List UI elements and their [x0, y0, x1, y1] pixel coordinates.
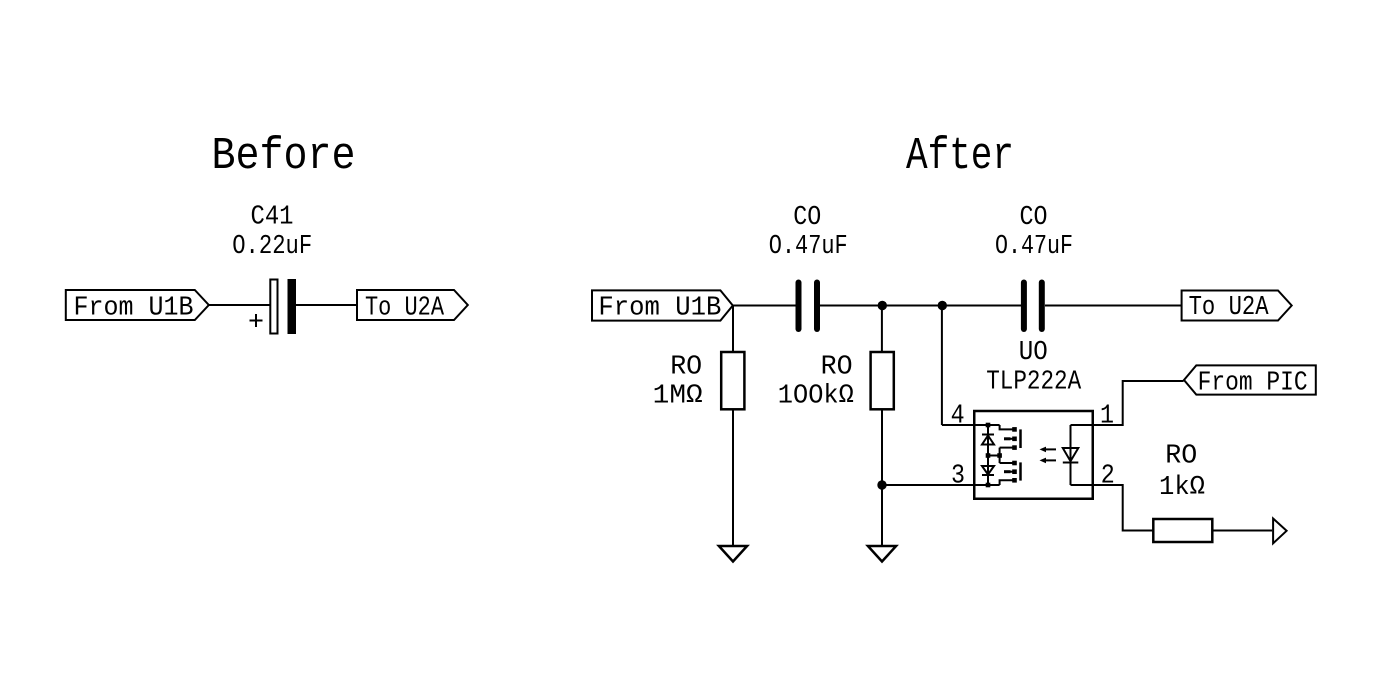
svg-text:4: 4 — [951, 402, 965, 432]
svg-text:From PIC: From PIC — [1198, 369, 1308, 399]
svg-text:UO: UO — [1019, 338, 1048, 368]
svg-text:To U2A: To U2A — [365, 294, 445, 324]
svg-text:C41: C41 — [251, 203, 294, 233]
svg-text:O.47uF: O.47uF — [995, 232, 1073, 262]
svg-text:RO: RO — [1165, 442, 1197, 472]
svg-text:TLP222A: TLP222A — [986, 367, 1082, 397]
svg-text:CO: CO — [1020, 203, 1048, 233]
svg-text:To U2A: To U2A — [1189, 293, 1270, 323]
svg-text:From U1B: From U1B — [74, 294, 194, 324]
svg-text:RO: RO — [821, 353, 853, 383]
svg-text:1MΩ: 1MΩ — [653, 382, 703, 412]
svg-text:1: 1 — [1100, 402, 1114, 432]
svg-text:1OOkΩ: 1OOkΩ — [778, 382, 854, 412]
svg-text:1kΩ: 1kΩ — [1159, 473, 1205, 503]
svg-text:RO: RO — [670, 353, 702, 383]
svg-text:Before: Before — [212, 131, 356, 182]
svg-text:3: 3 — [951, 461, 965, 491]
svg-text:2: 2 — [1101, 461, 1115, 491]
svg-text:O.22uF: O.22uF — [232, 232, 312, 262]
svg-text:CO: CO — [793, 203, 821, 233]
svg-text:O.47uF: O.47uF — [769, 232, 848, 262]
svg-text:After: After — [906, 131, 1014, 182]
svg-text:From U1B: From U1B — [598, 294, 721, 324]
